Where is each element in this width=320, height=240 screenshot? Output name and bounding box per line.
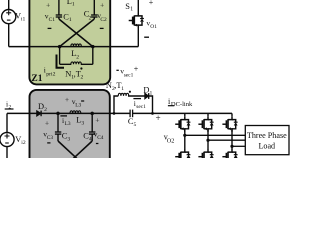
diode D2 bbox=[37, 111, 41, 117]
label i_sec1 with bar bbox=[133, 98, 141, 100]
crossed wire C2 to left node bbox=[60, 19, 95, 47]
svg-text:C4: C4 bbox=[97, 135, 104, 141]
svg-text:+: + bbox=[65, 95, 69, 104]
svg-text:+: + bbox=[95, 115, 99, 124]
svg-text:i2: i2 bbox=[21, 140, 26, 146]
node phase C bbox=[230, 145, 233, 148]
capacitor C5 (series) bbox=[130, 110, 133, 118]
capacitor C4 bbox=[89, 113, 95, 141]
svg-text:sec1: sec1 bbox=[124, 72, 134, 78]
capacitor C2 bbox=[91, 15, 97, 19]
svg-text:pri2: pri2 bbox=[46, 71, 55, 77]
top rail wire bbox=[9, 46, 139, 48]
winding N1,T2 coil bbox=[71, 62, 81, 64]
inductor L2 (coil on rail) bbox=[71, 44, 81, 47]
primary winding loop bbox=[60, 47, 93, 65]
svg-text:Three Phase: Three Phase bbox=[247, 131, 287, 140]
svg-text:+: + bbox=[46, 0, 50, 9]
node C3 top bbox=[56, 112, 60, 116]
phase line A bbox=[185, 134, 246, 136]
inverter switch Q5 (bottom leg2) bbox=[198, 149, 213, 164]
inverter switch Q4 (bottom leg1) bbox=[175, 149, 190, 164]
polarity dot primary bbox=[80, 67, 82, 69]
node phase A bbox=[183, 134, 186, 137]
svg-text:Load: Load bbox=[258, 142, 275, 151]
switch S1 (MOSFET with body diode) bbox=[137, 0, 139, 13]
impedance network Z1 box (shaded green) bbox=[29, 0, 110, 84]
svg-text:1: 1 bbox=[130, 7, 133, 13]
inverter switch Q6 (bottom leg3) bbox=[222, 149, 237, 164]
svg-text:+: + bbox=[134, 65, 139, 74]
polarity dot secondary bbox=[129, 91, 131, 93]
inverter switch Q3 (top leg3) bbox=[222, 117, 237, 132]
svg-text:+: + bbox=[100, 0, 104, 9]
svg-text:3: 3 bbox=[67, 136, 70, 142]
crossed wire C1 to right node bbox=[59, 19, 93, 47]
svg-text:2: 2 bbox=[44, 107, 47, 113]
qZS network Z2 box (shaded gray) bbox=[30, 90, 110, 168]
svg-text:O2: O2 bbox=[167, 138, 175, 145]
svg-text:C2: C2 bbox=[100, 17, 107, 23]
inductor L1 lead (cut at top) bbox=[58, 0, 60, 15]
svg-text:+: + bbox=[156, 113, 161, 123]
inverter leg 2 wire bbox=[207, 113, 209, 149]
svg-text:C1: C1 bbox=[49, 17, 56, 23]
node C4 top bbox=[90, 112, 94, 116]
voltage source Vi2 bbox=[0, 113, 14, 158]
inverter leg 1 wire bbox=[184, 113, 186, 149]
node secondary right bbox=[151, 112, 154, 115]
svg-text:1: 1 bbox=[121, 86, 124, 92]
svg-text:C3: C3 bbox=[47, 135, 54, 141]
svg-text:L3: L3 bbox=[65, 121, 71, 127]
svg-text:3: 3 bbox=[81, 120, 84, 126]
node secondary left bbox=[113, 112, 116, 115]
node phase B bbox=[206, 139, 209, 142]
crossed wire C4 bottom bbox=[73, 141, 92, 159]
svg-text:+: + bbox=[149, 0, 154, 7]
transformer secondary winding N2,T1 bbox=[114, 96, 145, 113]
node right bbox=[91, 45, 95, 49]
svg-text:Z1: Z1 bbox=[31, 74, 42, 84]
svg-text:+: + bbox=[45, 118, 49, 127]
inverter switch Q1 (top leg1) bbox=[175, 117, 190, 132]
svg-text:5: 5 bbox=[134, 122, 137, 128]
voltage source Vi1 bbox=[2, 0, 16, 47]
crossed wire C3 bottom bbox=[58, 141, 77, 159]
capacitor C2 lead bbox=[93, 0, 95, 15]
svg-text:O1: O1 bbox=[150, 24, 157, 30]
wire D1 to rail bbox=[149, 96, 153, 113]
label iL3 with bar bbox=[60, 115, 67, 117]
current arrow i_pri2 bbox=[57, 55, 65, 68]
svg-text:L3: L3 bbox=[75, 103, 81, 109]
diode D1 bbox=[145, 93, 149, 99]
svg-text:1: 1 bbox=[69, 17, 72, 23]
inverter switch Q2 (top leg2) bbox=[198, 117, 213, 132]
svg-text:DC-link: DC-link bbox=[171, 101, 193, 108]
label - vsec1 + bbox=[116, 69, 118, 71]
secondary coil bbox=[118, 93, 128, 96]
capacitor C3 bbox=[55, 113, 61, 141]
capacitor C1 bbox=[56, 15, 62, 19]
svg-text:2: 2 bbox=[81, 75, 84, 81]
phase line C bbox=[232, 145, 245, 147]
phase line B bbox=[208, 139, 245, 141]
node left bbox=[58, 45, 62, 49]
bottom rail wire bbox=[7, 112, 232, 114]
svg-text:2: 2 bbox=[76, 54, 79, 60]
inverter leg 3 wire bbox=[231, 113, 233, 149]
inductor L3 (coil on rail) bbox=[70, 111, 81, 113]
svg-text:sec1: sec1 bbox=[136, 104, 146, 110]
svg-text:2: 2 bbox=[89, 15, 92, 21]
svg-text:i1: i1 bbox=[21, 17, 26, 23]
three phase load box bbox=[245, 126, 289, 155]
svg-text:1: 1 bbox=[72, 2, 75, 8]
